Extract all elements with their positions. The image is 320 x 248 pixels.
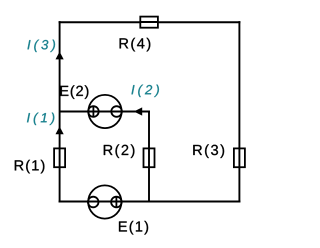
- wire right: [238, 21, 240, 202]
- label I(3): [28, 40, 56, 52]
- label R(1): [15, 160, 45, 174]
- label R(4): [120, 38, 151, 52]
- label R(3): [193, 144, 224, 158]
- wire bottom: [59, 201, 241, 203]
- wire E(2) branch: [60, 111, 150, 113]
- resistor R1: [54, 148, 65, 167]
- source E1: [88, 185, 122, 218]
- label E(1): [119, 221, 148, 235]
- wire left: [59, 21, 61, 202]
- wire top: [59, 21, 241, 23]
- current arrow I(2): [134, 107, 142, 115]
- source E2: [88, 95, 122, 128]
- resistor R4: [140, 17, 158, 28]
- label E(2): [61, 85, 89, 99]
- current arrow I(3): [56, 52, 64, 60]
- resistor R2: [144, 148, 155, 167]
- label I(2): [132, 85, 159, 97]
- wire middle branch: [148, 111, 150, 203]
- label I(1): [27, 113, 54, 125]
- label R(2): [104, 144, 135, 158]
- current arrow I(1): [56, 126, 64, 134]
- resistor R3: [234, 148, 245, 167]
